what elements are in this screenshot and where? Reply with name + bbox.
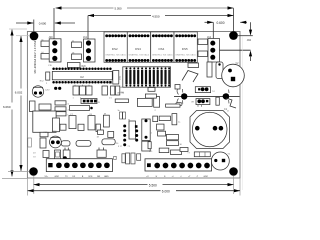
extension line bottom-left hole left	[8, 171, 29, 173]
capacitor C21	[73, 86, 79, 95]
resistor R6	[60, 124, 66, 130]
IC U5 lower	[142, 141, 150, 151]
svg-text:0.600: 0.600	[39, 21, 47, 25]
resistor R16	[158, 131, 166, 136]
crystal Y1	[211, 152, 231, 170]
svg-text:DS4: DS4	[159, 47, 165, 51]
transistor Q1	[32, 86, 49, 97]
svg-text:MC-2090A4 REV 1.0 ISS2: MC-2090A4 REV 1.0 ISS2	[33, 40, 37, 73]
box U6	[137, 98, 152, 106]
capacitor C5	[216, 62, 223, 79]
capacitor C12	[103, 113, 109, 127]
resistor R1	[46, 72, 50, 85]
wire link	[182, 71, 198, 83]
resistor R26	[188, 61, 199, 67]
resistor R24	[167, 141, 183, 146]
capacitor C13	[157, 124, 164, 130]
svg-text:4.550: 4.550	[152, 14, 160, 18]
dimension extension line from J12 pin1 up	[212, 22, 214, 40]
left edge component	[28, 138, 32, 147]
svg-text:#O: #O	[33, 157, 36, 159]
capacitor C18 left	[43, 151, 49, 158]
svg-text:5.500: 5.500	[149, 183, 157, 187]
IC U3	[113, 71, 122, 85]
relay DS2	[104, 32, 127, 62]
capacitor C25	[111, 86, 115, 95]
mounting hole top-right	[229, 31, 238, 40]
capacitor C4	[207, 62, 212, 77]
resistor R25	[149, 148, 169, 153]
svg-text:C2O: C2O	[45, 89, 50, 91]
capacitor C10	[216, 97, 219, 105]
extension line below bottom-right hole	[233, 176, 235, 194]
relay DS3	[127, 32, 150, 62]
svg-text:J10: J10	[49, 36, 54, 39]
svg-text:1O: 1O	[33, 153, 36, 155]
dimension extension line from J11 pin1 up	[87, 16, 89, 41]
svg-text:U6 T80: U6 T80	[117, 93, 125, 95]
small rect	[108, 132, 114, 138]
resistor R5	[70, 106, 90, 111]
resistor R8	[61, 141, 70, 146]
dimension 0.600 top-right	[205, 21, 248, 25]
small rects above TB2	[171, 150, 182, 155]
left vertical dimension 6.002 (hole to hole)	[14, 36, 27, 171]
test points	[54, 87, 57, 90]
small rects right of RN1	[175, 85, 180, 90]
faint double line right edge	[241, 36, 243, 190]
diode D2	[40, 138, 46, 148]
capacitor C26	[116, 86, 120, 95]
svg-text:A2: A2	[121, 86, 123, 89]
resistor R9	[76, 141, 91, 147]
dimension extension line from top-left hole up	[33, 20, 35, 32]
IC U5	[142, 119, 150, 141]
dimension extension line from top-right hole up	[233, 8, 235, 32]
capacitor C9	[30, 101, 36, 112]
svg-text:M: M	[104, 113, 106, 115]
header J14	[81, 99, 100, 105]
IC U4	[118, 119, 138, 148]
segmented rect under C1	[194, 152, 210, 157]
capacitor C16 above TB1	[55, 148, 71, 161]
resistor R23	[198, 51, 208, 57]
resistor R20	[68, 63, 87, 69]
left part	[96, 124, 100, 131]
resistor R14	[102, 139, 119, 145]
resistor R22	[198, 39, 208, 45]
dimension .034 right vertical	[246, 22, 252, 61]
small rect	[148, 142, 151, 149]
mounting hole bottom-right	[229, 167, 238, 176]
capacitor C8	[88, 114, 95, 130]
connector J10	[49, 36, 62, 62]
transformer K1 lower tab	[40, 132, 48, 137]
svg-text:J12: J12	[207, 36, 212, 39]
dimension 5.050 top	[56, 5, 234, 11]
small rect above TB1 left	[56, 152, 60, 157]
svg-text:RC2: RC2	[40, 81, 44, 83]
capacitor C2	[222, 63, 245, 87]
relay K2 upper	[195, 87, 215, 93]
connector J12	[207, 36, 220, 62]
resistor R12	[148, 86, 155, 92]
transformer K1 tab	[39, 104, 51, 110]
bottom dimension 6.000 board width	[28, 188, 241, 194]
extension tick top-left hole	[16, 35, 29, 37]
resistor R10	[115, 99, 128, 103]
capacitor C15	[172, 114, 181, 125]
transformer K1 body	[33, 111, 61, 132]
mounting hole top-left	[30, 32, 39, 41]
svg-text:7.O: 7.O	[212, 91, 216, 93]
svg-text:6.002: 6.002	[15, 91, 23, 95]
svg-text:J11: J11	[83, 36, 87, 39]
wire arcs left of W1 pad	[177, 88, 179, 95]
connector J11	[83, 36, 95, 62]
board outline	[27, 32, 240, 179]
capacitor C7	[69, 114, 76, 129]
svg-text:6.000: 6.000	[162, 190, 170, 194]
svg-text:34: 34	[128, 119, 130, 121]
capacitor C24	[102, 86, 108, 95]
extension line right of top-right hole	[238, 35, 253, 37]
pad	[90, 107, 93, 110]
capacitor C11	[154, 97, 160, 112]
pad	[223, 94, 228, 99]
transistor Q2	[50, 136, 62, 148]
wire elbow from W1 pad	[176, 103, 182, 106]
svg-text:DS5: DS5	[182, 47, 188, 51]
svg-text:GND: GND	[104, 176, 109, 178]
dimension 4.550 second	[88, 13, 234, 18]
terminal block TB2	[145, 159, 212, 171]
capacitor C23	[86, 86, 92, 95]
svg-text:6.060: 6.060	[3, 105, 11, 109]
relay DS4	[151, 32, 174, 62]
terminal block TB1	[46, 159, 112, 172]
bottom dimension 5.500 hole-to-hole	[34, 182, 234, 188]
resistor network RN1	[123, 67, 171, 87]
extension line board bottom left	[2, 177, 27, 179]
capacitor C6	[53, 118, 60, 132]
TB1 pin labels	[45, 176, 110, 178]
capacitor C17 above TB1	[97, 148, 106, 158]
relay DS5	[174, 32, 197, 62]
TB2 pin labels	[146, 176, 209, 178]
dimension extension line from J10 pin1 up	[53, 8, 55, 41]
resistor R11	[166, 104, 180, 107]
small square	[97, 130, 104, 139]
svg-text:9 17: 9 17	[118, 146, 122, 148]
left vertical dimension 6.060 (board height)	[2, 30, 16, 177]
jumper wire W1	[174, 89, 240, 104]
svg-text:k: k	[68, 115, 69, 117]
extension line below bottom-left hole	[33, 176, 35, 194]
svg-text:7 1: 7 1	[128, 146, 131, 148]
svg-text:DS2: DS2	[112, 47, 118, 51]
extension line below board right edge	[239, 178, 241, 196]
capacitor C14	[153, 116, 158, 122]
IC U2 DIP	[52, 67, 112, 83]
wire clip	[226, 98, 236, 113]
extension line below board left edge	[27, 178, 29, 196]
dimension 0.600 top-left	[16, 21, 75, 25]
resistor R13	[145, 94, 156, 98]
caps cluster between terminal blocks	[114, 156, 117, 159]
extension tick top-left edge	[9, 28, 27, 30]
resistor R15	[159, 116, 170, 121]
capacitor C1 electrolytic	[190, 108, 230, 149]
svg-text:U2: U2	[80, 75, 84, 79]
mounting hole bottom-left	[29, 167, 38, 176]
extension line from J12 middle pin to right dimension	[214, 49, 251, 51]
svg-text:DS3: DS3	[135, 47, 141, 51]
svg-text:0.600: 0.600	[217, 21, 225, 25]
svg-text:.034: .034	[246, 39, 251, 42]
relay K2 lower	[196, 99, 210, 107]
capacitor C22	[80, 86, 86, 95]
rect pair above U4	[120, 112, 123, 119]
resistor R17	[167, 134, 179, 139]
svg-text:5.050: 5.050	[115, 7, 122, 11]
pin ticks above caps	[74, 85, 76, 86]
resistor R7	[78, 124, 84, 130]
